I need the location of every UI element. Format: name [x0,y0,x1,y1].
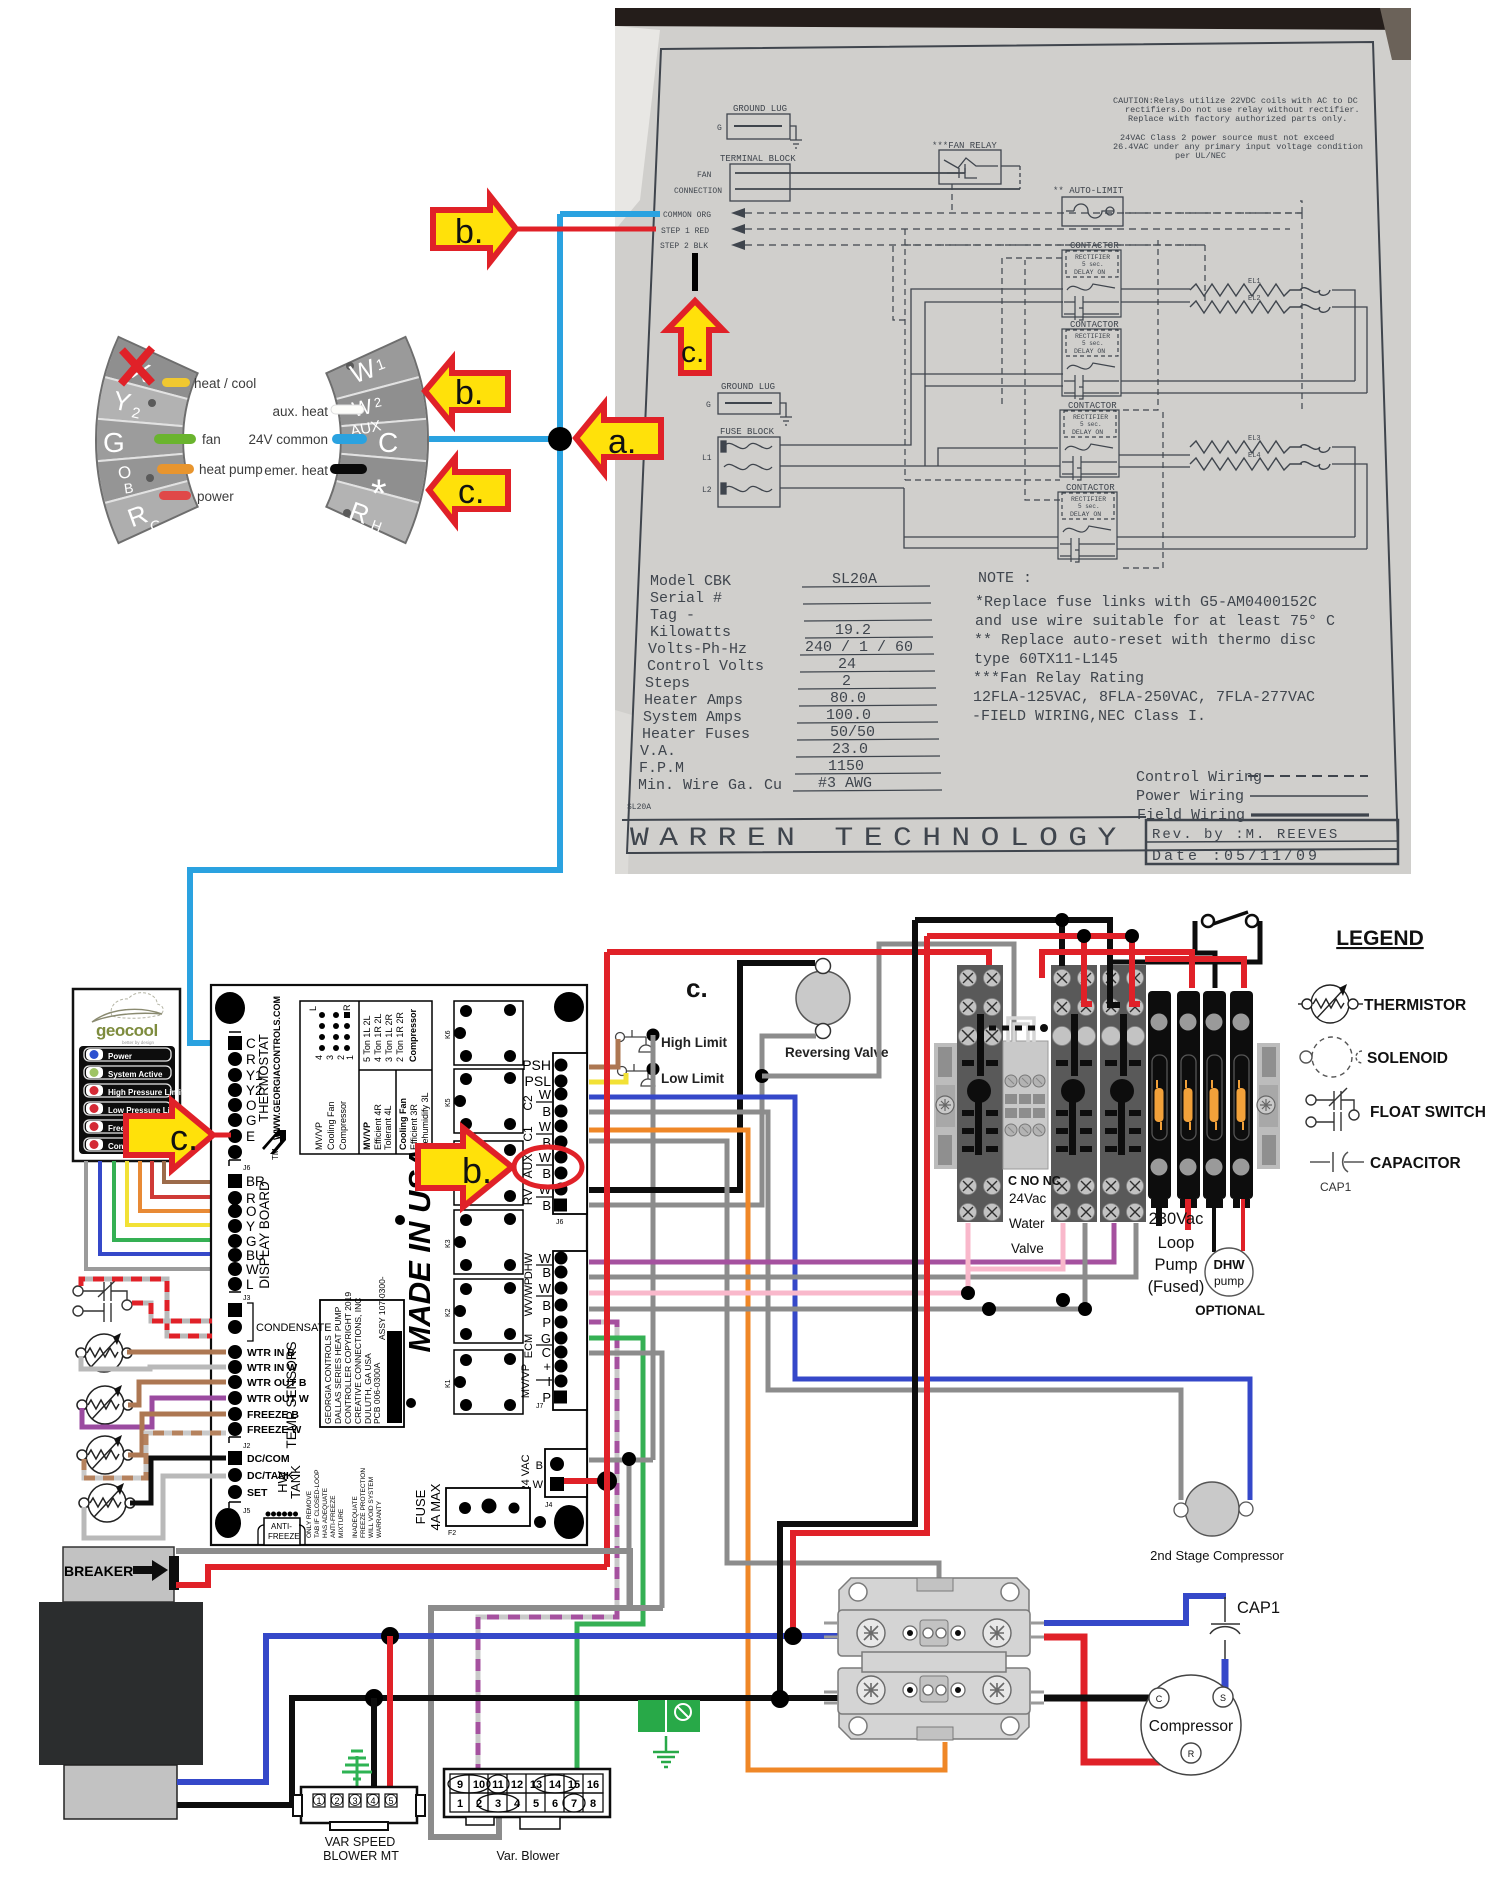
svg-text:P: P [542,1315,551,1330]
gray wire DHW B to relay3 [589,1223,1136,1277]
green wire ECM G [577,1338,643,1772]
arrow c up (points at STEP 2 BLK stub) [667,301,723,373]
gray junction dot [622,1452,636,1466]
heater element resistors EL1 EL2 [1190,278,1330,313]
svg-text:5: 5 [533,1798,539,1810]
svg-text:100.0: 100.0 [826,707,871,724]
svg-text:** Replace auto-reset with the: ** Replace auto-reset with thermo disc [974,632,1316,649]
svg-text:Compressor: Compressor [338,1101,348,1150]
thermistor T2 [77,1385,133,1424]
T4 wire gray to DC/TANK [84,1476,226,1538]
svg-text:ONLY REMOVE: ONLY REMOVE [306,1490,313,1538]
svg-text:DALLAS SERIES HEAT PUMP: DALLAS SERIES HEAT PUMP [333,1306,343,1424]
svg-text:TERMINAL BLOCK: TERMINAL BLOCK [720,154,796,164]
svg-text:24: 24 [838,656,856,673]
right arc labels [248,404,328,478]
svg-text:16: 16 [587,1779,599,1791]
blue stub CAP1 to S [1222,1659,1229,1689]
fuse4 red tail to DHW pump [1241,1199,1245,1251]
svg-text:GROUND LUG: GROUND LUG [733,104,787,114]
contactor CONTACTOR2 [1062,320,1121,399]
thermistor T3 [77,1435,133,1474]
red X mark over X terminal [121,348,152,384]
dashed control routing [893,184,1302,568]
svg-text:1150: 1150 [828,758,864,775]
svg-text:STEP 2 BLK: STEP 2 BLK [660,242,708,251]
svg-text:BREAKER: BREAKER [64,1563,133,1579]
svg-text:C: C [542,1345,551,1360]
svg-text:TAB IF CLOSED-LOOP: TAB IF CLOSED-LOOP [314,1469,321,1538]
svg-text:2 Ton 1R 2R: 2 Ton 1R 2R [395,1012,405,1062]
svg-text:COMMON ORG: COMMON ORG [663,211,711,220]
right thermostat arc [326,337,428,543]
svg-text:AUX: AUX [521,1154,535,1179]
DIN rail clamp right [1257,1043,1280,1169]
24V common wire stub blue [332,434,367,444]
T1 wire gray to WTR IN W [81,1356,226,1369]
svg-text:J3: J3 [243,1295,251,1302]
geocool LED Condensate [84,1138,171,1151]
svg-text:O: O [246,1204,257,1219]
element loop wiring right side [1117,289,1367,549]
transformer base [64,1765,177,1819]
fuse1 black tail [1156,1199,1162,1226]
svg-text:DC/COM: DC/COM [247,1453,290,1465]
svg-text:MV/VP: MV/VP [314,1122,324,1150]
svg-text:geocool: geocool [96,1021,158,1040]
black wire to var speed pin4 [371,1698,377,1794]
DIN rail clamp left [934,1043,957,1169]
svg-text:PSH: PSH [522,1057,551,1073]
heater element resistors EL3 EL4 [1190,435,1330,470]
svg-text:11: 11 [492,1779,504,1791]
svg-text:4A MAX: 4A MAX [428,1483,443,1530]
georgia controls logo glyph [262,1130,286,1154]
svg-text:S: S [1220,1693,1226,1703]
svg-text:K3: K3 [445,1239,452,1248]
junction dot black [365,1689,383,1707]
pink wire relay2 [968,1223,1063,1269]
fuse holder 2 230Vac [1177,991,1200,1208]
svg-text:F2: F2 [448,1530,456,1537]
fuse3 black tail to DHW pump [1212,1199,1216,1252]
svg-text:10: 10 [473,1779,485,1791]
geocool LED Low Pressure Limit [84,1102,182,1115]
svg-text:C2: C2 [521,1095,535,1111]
svg-text:L: L [308,1006,318,1011]
red drop to module3 row2 [1132,936,1140,1004]
svg-text:C NO NC: C NO NC [1008,1174,1061,1188]
gray wire 24VAC B [589,1458,653,1463]
wire brown PSH to high limit [589,1039,618,1067]
svg-text:1: 1 [457,1798,463,1810]
svg-text:B: B [536,1460,543,1472]
left thermostat arc [96,337,198,543]
high limit junction dot [647,1029,660,1042]
fuse block [702,427,780,507]
svg-text:FUSE: FUSE [413,1489,428,1524]
geocool LED High Pressure Limit [84,1084,184,1097]
svg-text:9: 9 [457,1779,463,1791]
svg-text:DISPLAY BOARD: DISPLAY BOARD [257,1181,272,1289]
svg-text:Cooling Fan: Cooling Fan [326,1101,336,1150]
COMMON ORG dashed wire [663,208,1302,220]
auto-limit device [1053,186,1124,226]
T3 wire dashed tan to FREEZE W [84,1433,226,1478]
geocool LED System Active [84,1066,171,1079]
svg-text:FREEZE PROTECTION: FREEZE PROTECTION [360,1468,367,1538]
svg-text:W: W [539,1150,552,1165]
svg-text:3: 3 [495,1798,501,1810]
svg-text:CAPACITOR: CAPACITOR [1370,1155,1461,1172]
svg-text:MV/VP: MV/VP [520,1364,532,1398]
svg-text:19.2: 19.2 [835,622,871,639]
svg-text:c.: c. [170,1117,198,1158]
compressor [1141,1675,1241,1775]
svg-text:50/50: 50/50 [830,724,875,741]
svg-text:aux. heat: aux. heat [272,404,328,419]
svg-text:GEORGIA CONTROLS: GEORGIA CONTROLS [323,1335,333,1424]
black STEP 2 wire stub [692,253,698,291]
ground lug G2 [706,382,792,425]
svg-text:R: R [342,1004,352,1011]
svg-text:b.: b. [455,374,483,412]
svg-text:Volts-Ph-Hz: Volts-Ph-Hz [648,641,747,658]
svg-text:Tag -: Tag - [650,607,695,624]
svg-text:FAN: FAN [697,171,712,180]
svg-text:V.A.: V.A. [640,743,676,760]
svg-text:FUSE BLOCK: FUSE BLOCK [720,427,775,437]
svg-text:W: W [539,1281,552,1296]
svg-text:G: G [103,427,125,458]
svg-text:WARREN TECHNOLOGY: WARREN TECHNOLOGY [630,823,1127,853]
svg-text:K2: K2 [445,1308,452,1317]
left arc labels [194,376,263,504]
water valve terminal block [1003,1018,1061,1256]
thermistor T4 [79,1483,135,1522]
svg-text:24 VAC: 24 VAC [520,1454,532,1491]
svg-text:5 Ton 1L 2L: 5 Ton 1L 2L [362,1015,372,1062]
connector strip J7 lower [553,1251,587,1410]
svg-text:Y: Y [246,1219,255,1234]
red wire contactor to compressor R [1044,1637,1186,1762]
svg-text:G: G [246,1234,257,1249]
purple wire DHW W to relay3 [589,1223,1114,1262]
svg-text:*: * [371,472,387,516]
heat pump wire stub orange [157,464,194,474]
svg-text:Loop: Loop [1158,1234,1195,1252]
black junction dot lower [771,1690,789,1708]
low limit switch [618,1064,656,1086]
dashed red condensate wire lower [132,1303,212,1321]
blue wire transformer to contactor [177,1636,845,1782]
board mounting hole top-left [215,992,245,1024]
svg-text:SOLENOID: SOLENOID [1367,1050,1448,1067]
svg-text:a.: a. [608,423,636,461]
relay socket module 1 [957,965,1003,1222]
svg-text:4: 4 [514,1798,521,1810]
T1 wire brown to WTR IN B [127,1350,226,1355]
svg-text:fan: fan [202,432,221,447]
svg-text:K6: K6 [445,1030,452,1039]
svg-text:THERMOSTAT: THERMOSTAT [256,1034,271,1122]
georgia controls info box [320,1300,404,1427]
fuse2 red tail [1185,1199,1191,1230]
contactor CONTACTOR4 [1058,483,1117,562]
legend solenoid symbol [1300,1037,1362,1077]
svg-text:I: I [547,1374,551,1389]
connector strip J6 upper [553,1053,587,1214]
svg-text:b.: b. [462,1150,492,1191]
svg-text:J7: J7 [536,1403,544,1410]
svg-text:VAR SPEED: VAR SPEED [325,1835,396,1849]
power routing lines fuse to contactors [780,289,1063,548]
svg-text:12FLA-125VAC, 8FLA-250VAC, 7FL: 12FLA-125VAC, 8FLA-250VAC, 7FLA-277VAC [973,689,1315,706]
gray wire valve to relay area [762,944,1014,1076]
svg-text:WILL VOID SYSTEM: WILL VOID SYSTEM [368,1477,375,1538]
svg-text:W: W [539,1087,552,1102]
breaker pointer arrow [133,1560,168,1581]
svg-text:C: C [1156,1694,1163,1704]
power wire stub red [159,491,191,500]
svg-text:BLOWER MT: BLOWER MT [323,1849,399,1863]
arrow c right (points at E terminal) [126,1101,213,1170]
transformer body [39,1602,203,1765]
svg-text:DHW: DHW [523,1252,535,1279]
ground tree symbol var speed [342,1751,372,1794]
svg-text:System Active: System Active [108,1070,163,1079]
svg-text:7: 7 [571,1798,577,1810]
board mounting hole bottom-right [554,1505,584,1539]
arrow a left (points at junction) [576,404,661,473]
contactor CONTACTOR1 [1062,241,1121,320]
svg-text:SL20A: SL20A [832,571,877,588]
svg-text:8: 8 [590,1798,596,1810]
fuse F2 4A MAX [446,1488,530,1526]
svg-text:6: 6 [552,1798,558,1810]
svg-text:better by design: better by design [122,1040,155,1045]
svg-text:12: 12 [511,1779,523,1791]
svg-text:FLOAT SWITCH: FLOAT SWITCH [1370,1104,1486,1121]
contactor CONTACTOR3 [1060,401,1119,480]
svg-text:*Replace fuse links with G5-AM: *Replace fuse links with G5-AM0400152C [975,594,1317,611]
module1 row3 X marks [962,1030,998,1042]
svg-text:Heater Fuses: Heater Fuses [642,726,750,743]
gray wire C1 B to contactor coil [589,1141,939,1581]
display board terminal block [228,1174,265,1292]
svg-text:Steps: Steps [645,675,690,692]
anti-freeze jumper [264,1518,300,1545]
wire yellow PSL to low limit [589,1073,626,1082]
svg-text:CAP1: CAP1 [1320,1180,1352,1194]
gray wire WV/WP B to relay2 [589,1223,1085,1309]
svg-text:240 / 1 / 60: 240 / 1 / 60 [805,639,913,656]
24 VAC terminal box [545,1449,587,1497]
thermistor T1 [76,1333,132,1372]
arrow b top (points right at STEP 1 RED wire) [433,196,516,262]
svg-text:Efficient 4R: Efficient 4R [373,1104,383,1150]
NOTE text [972,570,1335,725]
svg-text:J6: J6 [556,1219,564,1226]
display wire gray W [86,1161,226,1269]
svg-text:CREATIVE CONNECTIONS, INC: CREATIVE CONNECTIONS, INC [353,1298,363,1424]
relay K3 [445,1210,523,1274]
dashed red condensate wire upper [81,1279,212,1336]
caution note text [1113,96,1363,161]
relay K4 [445,1141,523,1205]
svg-text:(Fused): (Fused) [1148,1278,1205,1296]
legend float switch symbol [1306,1088,1359,1131]
fan wire stub green [154,434,196,444]
svg-text:Compressor: Compressor [408,1008,418,1062]
geocool display unit [73,989,180,1161]
svg-text:emer. heat: emer. heat [264,463,328,478]
svg-text:4 Ton 1R 2L: 4 Ton 1R 2L [373,1014,383,1062]
svg-text:FREEZE: FREEZE [268,1532,300,1541]
svg-text:Tolerant 4L: Tolerant 4L [383,1105,393,1150]
gray wire ECM C lower [660,1353,665,1608]
svg-text:SL20A: SL20A [627,803,651,812]
svg-text:G: G [717,124,722,133]
low limit junction dot [647,1063,660,1076]
junction dots below relays [961,1286,975,1300]
svg-text:Field Wiring: Field Wiring [1137,807,1245,824]
svg-text:ANTI-: ANTI- [271,1522,292,1531]
STEP 1 RED dashed wire [661,224,1290,236]
red wire top to relay module1 [607,952,989,966]
svg-text:TANK: TANK [288,1465,303,1499]
blue 24V common wire from C to Warren diagram [190,214,660,1043]
geocool LED Freeze Protection [84,1120,171,1133]
svg-text:B: B [542,1265,551,1280]
svg-text:MV/VP: MV/VP [362,1122,372,1150]
svg-text:2: 2 [476,1798,482,1810]
disconnect switch top right [1110,921,1260,988]
svg-text:THERMISTOR: THERMISTOR [1364,997,1466,1014]
svg-text:and use wire suitable for at l: and use wire suitable for at least 75° C [975,613,1335,630]
svg-text:1: 1 [316,1796,321,1806]
gray wire from board bottom [176,1551,630,1607]
svg-text:3 Ton 1L 2R: 3 Ton 1L 2R [384,1013,394,1062]
blue wire C2 W to 2nd stage compressor [589,1097,1250,1500]
fuse holder 3 230Vac [1203,991,1226,1208]
WARREN TECHNOLOGY title row [622,817,1146,820]
svg-text:B: B [542,1104,551,1119]
svg-text:G: G [541,1331,551,1346]
svg-text:type 60TX11-L145: type 60TX11-L145 [974,651,1118,668]
legend capacitor symbol [1310,1152,1364,1172]
high limit switch [616,1030,654,1052]
svg-text:WARRANTY: WARRANTY [376,1500,383,1538]
gray junction dot on valve wire [755,1069,769,1083]
svg-text:K5: K5 [445,1098,452,1107]
svg-text:Valve: Valve [1011,1241,1044,1256]
display wire red R [152,1161,226,1197]
relay K6 [445,1001,523,1065]
green ground symbol [653,1736,679,1767]
svg-text:RV: RV [521,1189,535,1205]
CAP1 capacitor [1210,1597,1240,1660]
svg-text:SET: SET [247,1487,268,1499]
gray wire C2 B to 2nd stage compressor [589,1112,1181,1500]
control board outline [211,985,587,1545]
svg-text:#3 AWG: #3 AWG [818,775,872,792]
svg-text:C: C [246,1036,256,1051]
svg-text:G: G [706,401,711,410]
svg-text:pump: pump [1214,1274,1244,1288]
230Vac Loop Pump label [1148,1210,1205,1296]
svg-text:High Pressure Limit: High Pressure Limit [108,1088,184,1097]
red wire to var speed pin5 [387,1636,393,1794]
reversing valve [796,971,850,1025]
red junction dot [597,1471,617,1491]
arrow b right (points at AUX) [418,1128,512,1207]
geocool LED Power [84,1048,171,1061]
svg-text:J4: J4 [545,1502,553,1509]
svg-text:26.4VAC under any primary inpu: 26.4VAC under any primary input voltage … [1113,142,1363,152]
blue wire contactor to CAP1 [1044,1596,1226,1623]
STEP 2 BLK dashed wire [660,240,1205,251]
svg-text:4: 4 [314,1055,324,1060]
svg-text:Rev. by :M. REEVES: Rev. by :M. REEVES [1152,827,1339,843]
fan relay [932,141,1020,189]
black wire transformer to contactor [177,1698,845,1805]
emer heat wire stub black [330,464,367,474]
model data table [627,571,913,812]
svg-text:Pump: Pump [1154,1256,1197,1274]
svg-text:ASSY 107-0300-: ASSY 107-0300- [377,1276,387,1340]
svg-text:1: 1 [345,1055,355,1060]
svg-text:Power: Power [108,1052,132,1061]
aux heat wire stub white [331,405,364,414]
svg-text:NOTE :: NOTE : [978,570,1032,587]
svg-text:STEP 1 RED: STEP 1 RED [661,227,709,236]
svg-text:P: P [542,1390,551,1405]
svg-text:WTR OUT W: WTR OUT W [247,1393,309,1405]
wiring style legend [1136,769,1262,824]
relay K1 [445,1350,523,1414]
fuse holder 4 230Vac [1230,991,1253,1208]
svg-text:c.: c. [686,973,708,1003]
svg-text:System Amps: System Amps [643,709,742,726]
display wire blue BU [100,1161,226,1254]
svg-text:Water: Water [1009,1216,1045,1231]
svg-text:L1: L1 [702,454,712,463]
DHW pump [1205,1248,1253,1296]
svg-text:CONNECTION: CONNECTION [674,187,722,196]
arrow c left (points at * emer heat) [429,458,508,523]
svg-text:Model CBK: Model CBK [650,573,731,590]
rev/date title block [1146,820,1398,865]
svg-text:LEGEND: LEGEND [1336,927,1424,950]
green indicator box [638,1700,700,1732]
svg-text:R: R [1188,1749,1195,1759]
svg-text:2: 2 [842,673,851,690]
terminal block [674,154,1020,201]
svg-text:Date :05/11/09: Date :05/11/09 [1152,848,1320,865]
svg-text:b.: b. [455,213,483,251]
svg-text:R: R [246,1052,256,1067]
svg-text:ANTI-FREEZE: ANTI-FREEZE [330,1495,337,1538]
red main vertical wire [604,952,610,1567]
red wire 24VAC W stub [564,1478,607,1484]
svg-text:Control Volts: Control Volts [647,658,764,675]
red junction dot on blue [784,1627,802,1645]
svg-text:23.0: 23.0 [832,741,868,758]
svg-text:15: 15 [568,1779,580,1791]
svg-text:** AUTO-LIMIT: ** AUTO-LIMIT [1053,186,1124,196]
svg-text:HAS ADEQUATE: HAS ADEQUATE [322,1487,329,1538]
